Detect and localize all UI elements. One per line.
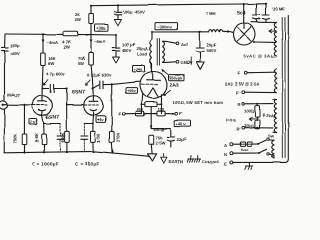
svg-text:R': R' xyxy=(237,127,241,132)
capacitor V1 cathode bypass xyxy=(44,124,64,153)
svg-text:Acf: Acf xyxy=(181,42,188,47)
output transformer T1 core xyxy=(157,39,159,66)
switch pole 2 contact xyxy=(267,153,270,155)
svg-text:~300mv: ~300mv xyxy=(157,24,173,29)
svg-text:2·5: 2·5 xyxy=(30,120,36,124)
bias label box 2A3 grid xyxy=(126,88,138,94)
capacitor coupling 4.7u 600V xyxy=(46,72,67,93)
label C=1000uF xyxy=(32,162,59,167)
wire B+ choke line xyxy=(151,31,234,33)
bottom ground rail xyxy=(4,151,149,157)
resistor 16K 6W plate load V1 xyxy=(41,53,56,96)
label 2A3 2.5V xyxy=(225,82,259,87)
svg-text:450V: 450V xyxy=(10,51,20,56)
svg-text:INPUT: INPUT xyxy=(8,93,21,98)
svg-text:CHASSIS: CHASSIS xyxy=(202,160,219,164)
label 5VAC 3A xyxy=(244,54,277,59)
svg-text:10Ω: 10Ω xyxy=(137,108,144,112)
wire V1 cathode xyxy=(42,115,45,134)
label box ~300mv xyxy=(155,23,178,30)
label box 550v xyxy=(169,75,185,81)
svg-text:F': F' xyxy=(236,91,240,96)
resistor 10R left xyxy=(136,108,144,116)
current arrow 60mA xyxy=(150,125,165,132)
output transformer T1 primary xyxy=(150,32,152,72)
wire V1 plate to coupling xyxy=(41,87,48,89)
node grid 2A3 junction xyxy=(111,83,113,85)
bias label box V1 cathode xyxy=(29,119,37,125)
svg-text:Sw: Sw xyxy=(268,134,275,139)
svg-text:100Ω: 100Ω xyxy=(244,109,255,114)
label 20MF xyxy=(272,7,285,12)
svg-text:~6mA: ~6mA xyxy=(94,39,106,44)
svg-text:2·5W: 2·5W xyxy=(156,141,166,146)
ground chassis legend xyxy=(187,156,219,165)
svg-text:2W: 2W xyxy=(75,17,81,22)
potentiometer hum 100R 5W xyxy=(141,102,162,129)
triode V2 grid xyxy=(85,104,99,106)
svg-text:100 μF: 100 μF xyxy=(122,42,136,47)
2A3 filament xyxy=(148,88,159,97)
arrow from 550v box xyxy=(162,69,168,75)
svg-text:5·6K: 5·6K xyxy=(34,133,39,142)
svg-text:100Ω, 5W SET min hum: 100Ω, 5W SET min hum xyxy=(173,100,224,105)
svg-text:680K: 680K xyxy=(60,132,65,142)
svg-text:7 MH: 7 MH xyxy=(206,11,216,16)
svg-text:270K: 270K xyxy=(115,132,120,142)
2A3 grid xyxy=(141,84,158,86)
2A3 plate xyxy=(147,72,161,81)
triode V2 6SN7 envelope xyxy=(84,96,104,116)
label 6.3VAC xyxy=(262,112,277,119)
svg-text:F: F xyxy=(238,71,241,76)
T2 primary winding xyxy=(269,140,274,159)
svg-text:60mA: 60mA xyxy=(154,127,165,132)
svg-text:0·22μF 630v: 0·22μF 630v xyxy=(87,73,112,78)
power transformer T2 HV winding xyxy=(274,22,276,56)
ground earth legend xyxy=(161,154,183,165)
rectifier V4 5U4 envelope xyxy=(233,23,255,45)
terminal E earth xyxy=(224,161,233,166)
svg-text:I=0·6: I=0·6 xyxy=(226,118,236,123)
svg-text:+4v: +4v xyxy=(97,118,104,122)
svg-text:GND: GND xyxy=(181,60,190,65)
svg-text:6SN7: 6SN7 xyxy=(72,90,85,96)
svg-text:25mA: 25mA xyxy=(137,46,148,51)
svg-text:+95v: +95v xyxy=(127,89,136,93)
capacitor V2 cathode bypass xyxy=(81,124,93,152)
T2 2.5V winding xyxy=(274,69,276,93)
svg-text:2A3: 2A3 xyxy=(170,83,180,89)
capacitor 22uF bias bypass xyxy=(151,129,187,148)
current arrow ~4mA xyxy=(42,34,58,53)
resistor 2K 2W xyxy=(75,6,93,35)
svg-text:+299: +299 xyxy=(134,67,144,72)
node +305V label box xyxy=(95,25,109,32)
wire rectifier heater to T2 xyxy=(253,41,276,43)
label box +45v xyxy=(175,121,191,127)
fuse xyxy=(240,142,251,152)
terminal AF out xyxy=(176,42,188,47)
capacitor 100u 450V top xyxy=(114,5,145,26)
triode V1 plate xyxy=(38,96,47,101)
svg-text:C ≈ 350μF: C ≈ 350μF xyxy=(76,162,100,167)
ground 750 xyxy=(148,154,157,161)
arrow gnd xyxy=(189,58,192,66)
capacitor coupling 0.22u 630V xyxy=(87,73,112,89)
svg-text:1·5K: 1·5K xyxy=(96,133,101,142)
terminal R prime supply xyxy=(237,126,274,131)
label 6SN7 V1 xyxy=(46,115,59,121)
chassis ground on earth wire xyxy=(245,162,253,169)
T2 6.3V winding xyxy=(273,99,277,133)
terminal F prime xyxy=(173,112,183,117)
power triode 2A3 envelope xyxy=(140,72,167,99)
capacitor 20MF first xyxy=(253,3,260,22)
svg-text:550vpk: 550vpk xyxy=(170,75,184,80)
label 6SN7 V2 xyxy=(72,90,85,96)
svg-text:'20 MF: '20 MF xyxy=(272,7,285,12)
resistor V2 cathode xyxy=(91,131,102,151)
arrow to 2A3 xyxy=(163,90,170,96)
svg-text:150μ: 150μ xyxy=(10,43,20,48)
wire earth xyxy=(233,16,288,163)
wire node B to cap2 xyxy=(91,34,117,47)
wire grid to 2A3 xyxy=(112,82,141,85)
terminal A mains xyxy=(224,143,240,148)
output transformer T1 secondary xyxy=(163,41,177,62)
wire V2 plate to coupling xyxy=(92,85,99,90)
resistor 680K grid leak V2 xyxy=(60,89,69,153)
humdinger wiper arrow xyxy=(250,117,258,121)
rectifier internals xyxy=(237,23,251,41)
capacitor 150u 450V first filter xyxy=(2,34,20,101)
resistor 100R upper humdinger xyxy=(244,104,260,117)
resistor 100R lower humdinger xyxy=(244,117,260,129)
svg-text:450V: 450V xyxy=(122,47,132,52)
resistor V1 cathode xyxy=(34,133,47,152)
resistor 10R right xyxy=(157,108,165,116)
resistor 4.7K 2W series filter xyxy=(62,31,78,49)
svg-text:+45 v: +45 v xyxy=(176,121,187,126)
HV centre tap arrow xyxy=(269,30,276,34)
label I eq 0.6 xyxy=(226,118,236,123)
terminal R supply xyxy=(238,102,274,107)
T2 core xyxy=(282,18,285,158)
svg-text:A: A xyxy=(224,143,227,148)
resistor 750 2.5W bias xyxy=(149,135,166,153)
wire 2A3 filament legs xyxy=(142,94,162,114)
capacitor 20uF 500V xyxy=(196,32,217,69)
svg-text:6W: 6W xyxy=(48,61,54,66)
triode V1 cathode xyxy=(39,110,46,116)
choke 7MH xyxy=(206,11,223,32)
label box +299 driver plate xyxy=(133,66,146,72)
node grid V2 junction xyxy=(66,87,68,89)
svg-text:+305: +305 xyxy=(96,26,106,31)
terminal F supply xyxy=(238,71,277,76)
wire rectifier top xyxy=(243,3,245,23)
note 100R 5W set min hum xyxy=(173,100,224,105)
svg-text:F': F' xyxy=(179,112,183,117)
wire HT bar xyxy=(251,21,277,23)
svg-text:6SN7: 6SN7 xyxy=(46,115,59,121)
arrow plate V2 xyxy=(85,80,90,86)
capacitor 100uF 450V second filter xyxy=(112,42,148,63)
input jack J1 xyxy=(0,101,7,109)
arrow plate V1 xyxy=(43,80,48,86)
wire input to grid V1 xyxy=(5,104,33,106)
svg-text:EARTH: EARTH xyxy=(169,159,183,164)
wire left HT rail y34 xyxy=(5,33,91,36)
svg-text:5W: 5W xyxy=(78,61,84,66)
switch pole 1 xyxy=(252,134,275,145)
svg-text:5c4: 5c4 xyxy=(237,10,246,16)
svg-text:5vAC @ 3AAC: 5vAC @ 3AAC xyxy=(244,54,277,59)
svg-text:C = 1000μF: C = 1000μF xyxy=(32,162,59,167)
svg-text:2A3 2·5V @ 2·5A: 2A3 2·5V @ 2·5A xyxy=(225,82,259,87)
node A junction xyxy=(42,33,44,35)
bias label box V2 cathode xyxy=(96,116,106,122)
triode V2 plate xyxy=(89,96,98,102)
svg-text:N: N xyxy=(224,152,227,157)
svg-text:E: E xyxy=(224,161,227,166)
svg-text:R: R xyxy=(238,102,241,107)
svg-text:2W: 2W xyxy=(64,45,70,50)
svg-text:750K: 750K xyxy=(13,133,18,143)
triode V1 6SN7 envelope xyxy=(32,96,52,116)
capacitor 20MF second xyxy=(263,3,270,23)
label C=350uF xyxy=(76,162,100,167)
svg-text:500V: 500V xyxy=(207,48,217,53)
svg-text:10Ω: 10Ω xyxy=(158,108,165,112)
label 5U4 xyxy=(237,10,246,16)
terminal F prime supply xyxy=(236,91,276,96)
svg-text:100μ ·450V: 100μ ·450V xyxy=(123,10,145,15)
svg-text:20μF: 20μF xyxy=(207,43,217,48)
terminal N mains xyxy=(224,149,267,157)
resistor 750K grid leak V1 xyxy=(13,105,27,153)
svg-text:~4mA: ~4mA xyxy=(47,40,59,45)
svg-text:4·7μ 600v: 4·7μ 600v xyxy=(46,72,66,77)
label 2A3 xyxy=(170,83,180,89)
current arrow ~6mA xyxy=(90,35,106,53)
wire B+ top rail xyxy=(90,4,266,7)
svg-text:F: F xyxy=(119,111,122,116)
terminal F xyxy=(119,111,137,116)
resistor 270K grid leak 2A3 xyxy=(110,84,121,151)
resistor 70K 5W plate load V2 xyxy=(78,53,94,96)
label INPUT xyxy=(8,93,21,98)
svg-text:fuse: fuse xyxy=(241,148,248,152)
wire left rail lower xyxy=(3,109,5,153)
terminal GND out xyxy=(176,60,190,65)
wire filament network xyxy=(136,113,174,115)
svg-text:Load: Load xyxy=(137,52,147,57)
svg-text:22μF: 22μF xyxy=(177,137,187,142)
triode V1 grid xyxy=(33,104,47,106)
wire to grid V2 xyxy=(67,104,84,106)
triode V2 cathode xyxy=(90,110,97,116)
wire V2 cathode xyxy=(92,115,94,131)
